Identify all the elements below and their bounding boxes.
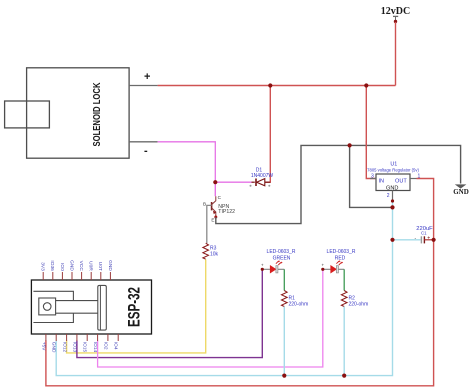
svg-text:RED: RED	[335, 256, 346, 262]
ESP-32 top pin stubs and labels	[43, 272, 110, 280]
svg-text:220-ohm: 220-ohm	[349, 302, 369, 308]
svg-text:3: 3	[371, 174, 374, 180]
svg-text:IO15: IO15	[82, 342, 88, 353]
svg-text:IO0: IO0	[59, 263, 65, 271]
wire U1 GND cyan net	[56, 200, 392, 376]
node junction cap right / +5V	[432, 238, 436, 242]
svg-text:-: -	[144, 145, 148, 157]
svg-text:IO12: IO12	[62, 342, 68, 353]
svg-text:12vDC: 12vDC	[381, 6, 410, 17]
svg-text:GREEN: GREEN	[273, 256, 291, 262]
svg-text:220-ohm: 220-ohm	[289, 302, 309, 308]
antenna bracket	[33, 291, 73, 322]
svg-text:VCC: VCC	[78, 261, 84, 272]
svg-text:+5V: +5V	[40, 342, 46, 351]
wire ground branch to cyan net	[350, 145, 393, 207]
svg-text:GND: GND	[51, 342, 57, 353]
svg-text:+: +	[427, 236, 430, 242]
wire red LED cathode to R2	[343, 269, 345, 290]
wire magenta junction to D1 cathode	[215, 181, 251, 183]
resistor R1 220-ohm	[281, 291, 308, 308]
wire 12V crossing patch	[365, 141, 367, 150]
LED D3 red	[321, 249, 356, 273]
svg-text:GND: GND	[453, 188, 469, 196]
svg-text:1N4007W: 1N4007W	[251, 173, 274, 179]
svg-text:U0R: U0R	[88, 261, 94, 271]
svg-text:+: +	[144, 71, 150, 83]
svg-text:IO4: IO4	[113, 342, 119, 350]
transistor Q1 NPN TIP122	[203, 195, 235, 223]
svg-text:IN: IN	[379, 179, 385, 185]
node junction gray/cyan	[390, 205, 394, 209]
svg-text:IO13: IO13	[71, 342, 77, 353]
ESP-32 module	[31, 280, 151, 334]
wire Q1 base to R3	[207, 205, 212, 243]
ground symbol GND right	[453, 184, 469, 196]
wire IO13 to green LED purple	[77, 269, 262, 357]
wire cap left lead cyan	[393, 239, 421, 241]
wire 12V top rail to solenoid +	[158, 85, 396, 87]
solenoid - pin stub	[129, 141, 158, 143]
power symbol 12vDC	[381, 6, 410, 23]
svg-text:U0T: U0T	[97, 262, 103, 271]
wire R2 to GND bus cyan	[343, 307, 345, 376]
wire solenoid- magenta to junction	[158, 142, 216, 182]
wire green LED cathode to R1	[283, 269, 285, 290]
node junction R1/GND bus	[282, 374, 286, 378]
wire U1 OUT to +5V red	[46, 179, 434, 386]
svg-text:ESP-32: ESP-32	[125, 287, 144, 327]
wire IO14 to red LED pink	[98, 269, 323, 367]
solenoid lock body	[5, 68, 130, 158]
resistor R3 10k	[203, 243, 219, 259]
resistor R2 220-ohm	[341, 291, 368, 308]
svg-text:+: +	[261, 263, 264, 268]
wire 12V branch to U1 IN	[366, 86, 376, 179]
svg-text:2: 2	[387, 193, 390, 199]
svg-text:+: +	[322, 263, 325, 268]
svg-text:IO2: IO2	[102, 342, 108, 350]
node junction R2/GND bus	[342, 374, 346, 378]
svg-text:10k: 10k	[210, 252, 219, 258]
svg-text:LED-0603_R: LED-0603_R	[327, 249, 356, 255]
svg-text:TIP122: TIP122	[218, 209, 235, 215]
svg-text:LED-0603_R: LED-0603_R	[267, 249, 296, 255]
wire 12V vertical from 12vDC	[395, 22, 397, 86]
node junction ground rail	[348, 143, 352, 147]
connector bars	[56, 301, 98, 314]
antenna square	[39, 298, 56, 315]
capacitor C1 220uF	[415, 226, 434, 243]
svg-text:IO36: IO36	[49, 260, 55, 271]
node junction solenoid-/D1/Q1	[213, 180, 217, 184]
svg-text:SOLENOID LOCK: SOLENOID LOCK	[92, 82, 103, 147]
node junction 12V/U1	[364, 83, 368, 87]
shield rect	[98, 285, 107, 330]
wire magenta junction to Q1 collector	[214, 182, 216, 196]
wire R1 to GND bus cyan	[283, 307, 285, 376]
svg-text:OUT: OUT	[395, 179, 407, 185]
voltage regulator U1 7805	[367, 162, 420, 200]
svg-text:GND: GND	[68, 260, 74, 271]
solenoid + pin stub	[129, 85, 158, 87]
node junction 12V/D1	[268, 83, 272, 87]
wire R3 to IO12 yellow	[67, 259, 206, 353]
svg-text:C1: C1	[421, 230, 427, 235]
svg-text:IO14: IO14	[92, 342, 98, 353]
svg-text:B: B	[203, 201, 206, 206]
ESP-32 bottom pin stubs and labels	[46, 334, 118, 341]
svg-text:7805 voltage Regulator (5v): 7805 voltage Regulator (5v)	[367, 167, 419, 172]
LED D2 green	[261, 249, 296, 273]
svg-text:E: E	[211, 218, 214, 223]
diode D1	[250, 168, 274, 187]
svg-text:GND: GND	[107, 260, 113, 271]
wire 12V branch to D1 anode	[265, 86, 271, 183]
node junction cap left	[390, 238, 394, 242]
svg-text:3V3: 3V3	[40, 262, 46, 271]
wire Q1 emitter to ground rail	[216, 145, 461, 223]
